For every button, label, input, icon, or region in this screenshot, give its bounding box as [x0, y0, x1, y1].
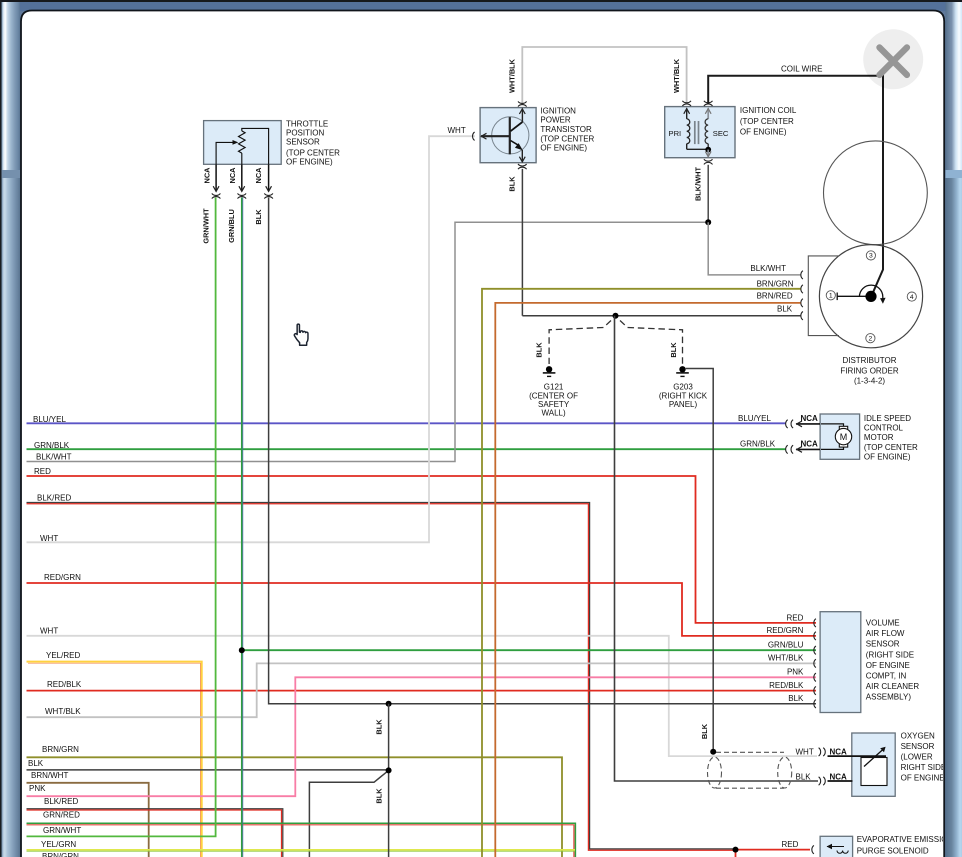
wire GRN/RED down off page [27, 823, 576, 857]
transistor BLK lead down [521, 169, 523, 316]
svg-text:WHT: WHT [448, 126, 466, 135]
svg-text:RED/GRN: RED/GRN [44, 573, 81, 582]
svg-text:RED: RED [34, 467, 51, 476]
svg-text:(TOP CENTER: (TOP CENTER [286, 149, 340, 158]
svg-text:BLK: BLK [777, 305, 793, 314]
motor leads with NCA breaks [796, 423, 820, 425]
distributor cap circle [824, 141, 928, 245]
svg-text:COMPT, IN: COMPT, IN [866, 672, 907, 681]
svg-text:VOLUME: VOLUME [866, 619, 900, 628]
coil windings [686, 108, 688, 119]
wire WHT/BLK transistor to coil [522, 47, 686, 103]
svg-text:GRN/WHT: GRN/WHT [43, 826, 81, 835]
ignition coil box [665, 107, 735, 158]
WHT lead with break [481, 133, 486, 139]
svg-text:RED/BLK: RED/BLK [47, 680, 82, 689]
svg-text:(TOP CENTER: (TOP CENTER [540, 134, 594, 143]
svg-text:GRN/BLU: GRN/BLU [227, 209, 236, 243]
wire YEL/GRN [27, 849, 576, 851]
svg-text:WHT/BLK: WHT/BLK [508, 58, 517, 93]
svg-text:CONTROL: CONTROL [864, 424, 904, 433]
svg-text:RED/GRN: RED/GRN [767, 626, 804, 635]
wire GRN/BLK to idle speed control motor [27, 448, 787, 450]
mouse cursor (hand pointer) [294, 324, 308, 345]
svg-text:POSITION: POSITION [286, 129, 324, 138]
svg-text:DISTRIBUTOR: DISTRIBUTOR [842, 356, 896, 365]
svg-text:IGNITION COIL: IGNITION COIL [740, 106, 797, 115]
COIL WIRE [708, 76, 883, 295]
svg-text:OF ENGINE): OF ENGINE) [740, 128, 787, 137]
svg-text:M: M [840, 432, 848, 442]
svg-text:WHT/BLK: WHT/BLK [768, 654, 804, 663]
wire RED continuation to solenoid [736, 849, 811, 851]
svg-text:YEL/RED: YEL/RED [46, 651, 80, 660]
svg-text:BLK/RED: BLK/RED [37, 494, 71, 503]
svg-text:SENSOR: SENSOR [901, 742, 935, 751]
motor symbol [821, 424, 844, 427]
svg-text:(RIGHT SIDE: (RIGHT SIDE [866, 650, 914, 659]
svg-text:3: 3 [869, 253, 873, 260]
svg-text:GRN/WHT: GRN/WHT [201, 208, 210, 244]
svg-text:FIRING ORDER: FIRING ORDER [840, 367, 898, 376]
svg-text:WHT/BLK: WHT/BLK [45, 707, 81, 716]
svg-text:BLK: BLK [375, 719, 384, 735]
svg-text:PNK: PNK [29, 784, 46, 793]
wire BLK/RED down off page [27, 809, 283, 857]
wire BRN/WHT down off page [27, 783, 149, 857]
svg-text:OXYGEN: OXYGEN [901, 732, 935, 741]
svg-text:WHT/BLK: WHT/BLK [672, 58, 681, 93]
dashed lead to G121 [549, 321, 611, 365]
sensor input breaks [814, 619, 816, 627]
svg-text:BLU/YEL: BLU/YEL [738, 414, 771, 423]
svg-text:AIR FLOW: AIR FLOW [866, 629, 905, 638]
svg-text:RED: RED [787, 613, 804, 622]
svg-text:PNK: PNK [787, 667, 804, 676]
svg-text:RIGHT SIDE: RIGHT SIDE [901, 763, 947, 772]
oxygen sensor element [861, 758, 887, 786]
rotor center and direction arc [865, 291, 876, 302]
wire BLK vertical between junctions, off page [388, 704, 390, 857]
wire WHT to oxygen sensor [27, 636, 818, 756]
svg-text:BLK: BLK [669, 342, 678, 358]
svg-text:WHT: WHT [40, 626, 58, 635]
right scrollbar thumb [946, 2, 962, 170]
ignition power transistor box [480, 108, 536, 163]
solenoid arrow symbol [827, 846, 844, 848]
svg-text:WHT: WHT [796, 748, 814, 757]
wire G203 to oxygen sensor shield [686, 369, 714, 751]
wire BLK/RED to evaporative purge solenoid [27, 503, 736, 849]
svg-text:THROTTLE: THROTTLE [286, 120, 328, 129]
svg-text:NCA: NCA [254, 167, 263, 184]
distributor rotor circle [819, 245, 922, 348]
svg-text:PANEL): PANEL) [669, 400, 698, 409]
svg-text:BLK/RED: BLK/RED [44, 797, 78, 806]
svg-text:BRN/GRN: BRN/GRN [42, 852, 79, 857]
wire BRN/GRN down off page [27, 757, 563, 857]
dashed lead to G203 [620, 321, 683, 365]
svg-text:NCA: NCA [202, 167, 211, 184]
oxygen sensor shield (dashed) [708, 757, 722, 788]
svg-text:TRANSISTOR: TRANSISTOR [540, 125, 592, 134]
evaporative purge solenoid box [820, 836, 853, 857]
wire RED/GRN to volume air flow sensor [27, 583, 817, 636]
svg-text:BLK: BLK [796, 773, 812, 782]
wire BLK transistor to distributor [522, 315, 800, 317]
svg-text:IDLE SPEED: IDLE SPEED [864, 414, 911, 423]
svg-text:(LOWER: (LOWER [901, 753, 933, 762]
svg-text:GRN/RED: GRN/RED [43, 811, 80, 820]
throttle position sensor box [204, 121, 282, 165]
svg-text:BLK: BLK [535, 342, 544, 358]
svg-text:RED: RED [782, 840, 799, 849]
wire BLU/YEL to idle speed control motor [27, 422, 787, 424]
wire GRN/WHT from throttle position sensor [27, 198, 216, 837]
svg-text:BLK/WHT: BLK/WHT [36, 452, 72, 461]
wire RED to volume air flow sensor [27, 476, 817, 623]
junction BLK/WHT [705, 219, 711, 225]
svg-text:PRI: PRI [669, 129, 682, 138]
wire BRN/GRN to distributor [482, 289, 801, 857]
svg-text:SENSOR: SENSOR [866, 640, 900, 649]
svg-text:SEC: SEC [713, 129, 729, 138]
svg-text:COIL WIRE: COIL WIRE [781, 64, 822, 73]
distributor connector bracket [808, 256, 839, 336]
svg-text:(TOP CENTER: (TOP CENTER [864, 443, 918, 452]
wire PNK to volume air flow sensor [27, 677, 817, 796]
svg-text:BRN/GRN: BRN/GRN [757, 279, 794, 288]
svg-text:YEL/GRN: YEL/GRN [41, 840, 76, 849]
svg-text:(TOP CENTER: (TOP CENTER [740, 117, 794, 126]
svg-text:BLK/WHT: BLK/WHT [750, 264, 786, 273]
wire BLK junction down to oxygen sensor [615, 316, 819, 781]
transistor symbol [492, 117, 529, 154]
svg-text:OF ENGINE): OF ENGINE) [286, 157, 333, 166]
junction BLK row [386, 767, 392, 773]
wire BLK/WHT from coil junction [27, 222, 709, 461]
oxygen sensor box [852, 733, 895, 796]
wire BLK row to junction [27, 769, 389, 771]
junction BLK to grounds [613, 313, 619, 319]
svg-text:OF ENGINE): OF ENGINE) [540, 144, 587, 153]
svg-text:(1-3-4-2): (1-3-4-2) [854, 377, 885, 386]
svg-text:ASSEMBLY): ASSEMBLY) [866, 693, 912, 702]
svg-text:POWER: POWER [540, 116, 570, 125]
svg-text:BRN/GRN: BRN/GRN [42, 745, 79, 754]
svg-text:BLK: BLK [788, 694, 804, 703]
volume air flow sensor box [820, 612, 861, 713]
svg-text:OF ENGINE: OF ENGINE [866, 661, 910, 670]
TPS lead wires with connector breaks [215, 164, 217, 191]
right scrollbar track [946, 2, 962, 857]
svg-text:MOTOR: MOTOR [864, 433, 894, 442]
svg-text:G121: G121 [544, 382, 564, 391]
svg-text:OF ENGINE): OF ENGINE) [864, 452, 911, 461]
potentiometer inside TPS [239, 131, 246, 153]
svg-text:BLK: BLK [375, 788, 384, 804]
wire GRN/BLU column with branch to volume air flow sensor [241, 198, 243, 857]
junction solenoid red [733, 847, 739, 853]
svg-text:BLK: BLK [28, 759, 44, 768]
numbered terminals [826, 291, 835, 300]
svg-text:EVAPORATIVE EMISSION: EVAPORATIVE EMISSION [857, 835, 954, 844]
svg-text:PURGE SOLENOID: PURGE SOLENOID [857, 846, 929, 855]
svg-text:NCA: NCA [801, 439, 819, 448]
left scrollbar track [2, 2, 21, 857]
svg-text:1: 1 [829, 293, 833, 300]
svg-text:BRN/RED: BRN/RED [757, 291, 793, 300]
left scrollbar thumb [2, 2, 21, 170]
svg-text:AIR CLEANER: AIR CLEANER [866, 682, 920, 691]
ground G121 [546, 366, 552, 372]
svg-text:BLK/WHT: BLK/WHT [694, 166, 703, 201]
wire YEL/RED down off page [27, 662, 202, 857]
svg-text:BLK: BLK [508, 176, 517, 192]
svg-text:GRN/BLU: GRN/BLU [768, 640, 804, 649]
svg-text:OF ENGINE: OF ENGINE [901, 774, 945, 783]
svg-text:2: 2 [869, 336, 873, 343]
wire BLK elbow down-left off page [309, 770, 388, 857]
coil wire to distributor rotor [707, 165, 709, 223]
svg-text:BLK: BLK [700, 723, 709, 739]
wire RED/BLK to volume air flow sensor [27, 690, 817, 692]
svg-text:RED/BLK: RED/BLK [769, 681, 804, 690]
svg-text:NCA: NCA [801, 414, 819, 423]
idle speed control motor box [820, 414, 860, 459]
svg-text:IGNITION: IGNITION [540, 106, 576, 115]
svg-text:WALL): WALL) [542, 408, 566, 417]
junction BLK tee [386, 701, 392, 707]
svg-text:G203: G203 [673, 383, 693, 392]
close button [863, 29, 923, 89]
pin 1 lead [837, 295, 865, 297]
shield ground junction [710, 749, 716, 755]
wire BRN/RED to distributor [495, 303, 800, 857]
svg-text:BLK: BLK [254, 209, 263, 225]
wire BLK column from TPS to volume air flow sensor [269, 198, 816, 704]
svg-text:BRN/WHT: BRN/WHT [31, 771, 68, 780]
svg-text:4: 4 [910, 294, 914, 301]
ground G203 [679, 366, 685, 372]
junction GRN/BLU branch [239, 647, 245, 653]
svg-text:NCA: NCA [228, 167, 237, 184]
svg-text:GRN/BLK: GRN/BLK [740, 440, 776, 449]
svg-text:SENSOR: SENSOR [286, 137, 320, 146]
wire WHT to ignition power transistor [27, 136, 476, 542]
wire WHT/BLK to volume air flow sensor [27, 663, 817, 717]
